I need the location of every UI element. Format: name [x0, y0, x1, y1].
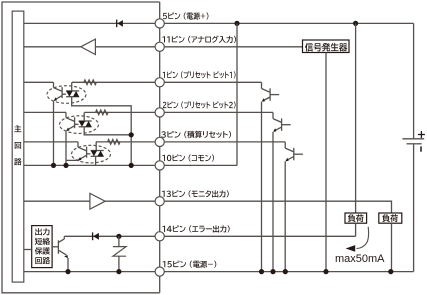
junction Q2/-V: [270, 269, 275, 274]
photocoupler PC3: [72, 142, 111, 163]
wire PC1 emitter to common: [53, 101, 55, 165]
resistor R3: [108, 140, 120, 145]
wire pin14 row left: [64, 235, 155, 237]
wire load R to -V: [391, 223, 393, 271]
wire PC2 emitter to common: [65, 131, 67, 165]
wire PC3 LED return: [95, 156, 97, 165]
transistor Q3 (reset drive): [285, 142, 303, 162]
wire signal generator to -V: [325, 53, 327, 272]
resistor R1: [84, 80, 96, 85]
wire pin14 to load L: [164, 223, 355, 236]
transistor Q2 (preset bit2 drive): [273, 112, 291, 131]
wire pin1 row left: [24, 81, 156, 83]
label pin 5: 5ピン （電源+）: [163, 12, 209, 19]
wire +V line right: [164, 22, 413, 24]
wire PC1 LED return: [72, 97, 132, 166]
transistor Q4 (error output driver): [52, 236, 68, 258]
terminal pin 1: [155, 78, 164, 87]
wire pin3 row right: [164, 141, 285, 143]
wire -V line right: [164, 271, 413, 273]
wire pin13 to load: [164, 201, 391, 213]
wire Q4 emitter to -V: [67, 258, 69, 272]
label max50mA: [335, 253, 385, 265]
battery BT1: [402, 23, 425, 271]
wire main block to protection block: [24, 249, 32, 251]
wire pin11 row left: [24, 46, 156, 48]
junction PC2 emitter/common: [63, 163, 68, 168]
wire pin2 row left: [24, 111, 156, 113]
junction Q4 emitter/-V: [65, 269, 70, 274]
junction Q1/-V: [259, 269, 264, 274]
wire pin3 row left: [24, 141, 156, 143]
resistor R2: [96, 110, 108, 115]
label pin 3: 3ピン （積算リセット）: [161, 131, 231, 138]
wire Q3 emitter to -V: [284, 161, 286, 271]
wire Q1 emitter to -V: [261, 102, 263, 272]
main-circuit block (主回路): [12, 11, 24, 282]
wire pin2 row right: [164, 111, 273, 113]
terminal pin 3: [155, 137, 164, 146]
wire pin10 common row left: [24, 164, 156, 166]
wire pin15 row left: [24, 271, 156, 273]
label pin 2: 2ピン （プリセット ビット2）: [163, 101, 236, 108]
junction PC1 emitter/common: [51, 163, 56, 168]
diode D2 on error line: [93, 232, 99, 240]
wire PC2 LED return: [84, 127, 131, 135]
label pin 15: 15ピン （電源−）: [163, 261, 217, 268]
wire pin13 row left: [24, 200, 156, 202]
junction Q3/-V: [283, 269, 288, 274]
load box R (負荷): [379, 213, 402, 223]
label pin 14: 14ピン （エラー出力）: [162, 225, 229, 232]
terminal pin 14: [155, 232, 164, 241]
wire pin5 row left: [24, 22, 156, 24]
label pin 10: 10ピン （コモン）: [162, 154, 214, 161]
main unit enclosure outline: [2, 2, 160, 293]
junction signal generator/-V: [323, 269, 328, 274]
terminal pin 5: [155, 19, 164, 28]
amplifier A1 (analog input, pointing left): [81, 39, 96, 54]
junction +V/load L riser: [353, 21, 358, 26]
photocoupler PC1: [47, 82, 86, 103]
output short protection block (出力短絡保護回路): [32, 226, 52, 268]
junction +V/common riser: [234, 21, 239, 26]
junction zener/-V: [116, 269, 121, 274]
wire PC3 emitter jog: [66, 159, 78, 161]
terminal pin 11: [155, 42, 164, 51]
amplifier A2 (monitor output, pointing right): [90, 193, 105, 209]
wire pin1 row right: [164, 81, 261, 83]
photocoupler PC2: [60, 112, 99, 133]
wire pin11 to signal generator: [164, 46, 302, 48]
label pin 13: 13ピン （モニタ出力）: [162, 190, 229, 197]
wire pin10 common to +V riser: [164, 23, 237, 165]
zener diode Z1: [113, 236, 126, 271]
label pin 11: 11ピン （アナログ入力）: [162, 36, 236, 43]
junction LED return/common: [129, 163, 134, 168]
signal generator box (信号発生器): [303, 40, 350, 53]
wire +V to load L: [355, 23, 357, 213]
terminal pin 15: [155, 267, 164, 276]
label pin 1: 1ピン （プリセット ビット1）: [163, 71, 236, 78]
terminal pin 10: [155, 161, 164, 170]
svg-text:max50mA: max50mA: [335, 253, 385, 265]
diode D1 on +V line: [117, 20, 123, 28]
junction PC2/PC1 LED return: [129, 132, 134, 137]
junction D2/zener: [116, 234, 121, 239]
transistor Q1 (preset bit1 drive): [262, 82, 280, 102]
junction load R/-V: [388, 269, 393, 274]
wire Q2 emitter to -V: [272, 132, 274, 272]
current arrow (max50mA): [346, 227, 369, 252]
load box L (負荷): [345, 213, 367, 223]
terminal pin 2: [155, 108, 164, 117]
terminal pin 13: [155, 197, 164, 206]
terminal line (pin column): [159, 2, 161, 293]
